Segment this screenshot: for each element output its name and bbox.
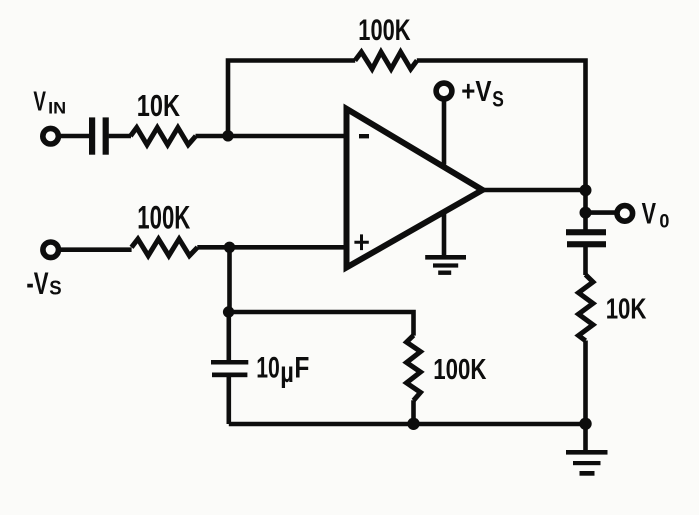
svg-text:+V: +V — [461, 76, 492, 108]
svg-text:IN: IN — [48, 100, 66, 118]
svg-text:S: S — [49, 277, 61, 300]
svg-text:100K: 100K — [137, 198, 190, 235]
svg-text:10K: 10K — [606, 293, 647, 325]
svg-text:10K: 10K — [137, 88, 180, 123]
svg-text:F: F — [294, 351, 309, 384]
svg-text:V: V — [33, 84, 46, 116]
svg-text:µ: µ — [280, 356, 294, 389]
svg-text:-V: -V — [26, 266, 48, 301]
svg-text:V: V — [642, 197, 657, 230]
svg-text:S: S — [492, 87, 504, 112]
svg-text:10: 10 — [256, 351, 280, 384]
svg-text:0: 0 — [659, 211, 669, 233]
svg-text:100K: 100K — [358, 14, 410, 47]
svg-text:100K: 100K — [433, 354, 487, 386]
